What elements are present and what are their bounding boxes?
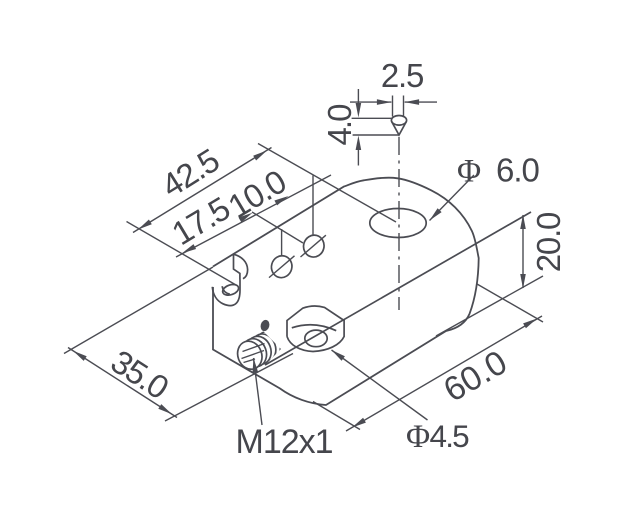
dim 35.0 right extension: [165, 354, 293, 422]
shared left extension line: [127, 222, 237, 286]
svg-text:20.0: 20.0: [530, 212, 567, 272]
svg-text:2.5: 2.5: [381, 57, 423, 94]
dim 2.5 extension lines: [392, 96, 394, 117]
screw hole B ellipse: [301, 233, 326, 260]
mounting lug hole: [305, 330, 327, 347]
M12 end face slot lines: [243, 344, 265, 352]
dim 2.5 right line with arrow: [405, 101, 437, 103]
dim 60.0 left extension: [313, 402, 360, 430]
dim 42.5 line: [133, 148, 272, 233]
cone tip ellipse: [391, 116, 406, 126]
notch groove bore ellipse: [221, 283, 240, 297]
dim 17.5-10.0 line: [176, 175, 331, 257]
dim 35.0 line: [68, 348, 177, 418]
top hole ellipse: [370, 209, 426, 238]
leader phi4.5: [332, 350, 428, 420]
front-top edge with 20.0 extension: [265, 212, 531, 365]
notch groove bore inner arc: [222, 286, 230, 294]
screw hole A vertical extension: [281, 229, 283, 256]
notch groove outer arc: [212, 280, 240, 306]
leader phi6: [430, 175, 475, 221]
dim 35.0 left extension: [64, 267, 213, 354]
notch slot right wall: [234, 254, 240, 279]
dim 4.0 top reference line: [352, 117, 393, 119]
mounting lug outline: [287, 306, 344, 352]
dim 20.0 line: [522, 215, 524, 288]
screw hole B vertical extension: [312, 176, 314, 236]
svg-text:Φ: Φ: [457, 154, 481, 190]
screw hole A ellipse: [269, 253, 294, 280]
dim 20.0 bottom extension: [436, 276, 543, 336]
indicator LED dot: [259, 319, 270, 332]
sensor body outline: [213, 178, 479, 405]
svg-text:4.5: 4.5: [430, 418, 470, 454]
cone sides: [392, 122, 407, 136]
extension at first hole: [252, 212, 303, 243]
M12 end face: [234, 338, 266, 373]
dim 4.0 upper arrow line: [357, 89, 359, 112]
svg-text:6.0: 6.0: [496, 152, 540, 189]
dim 60.0 line: [346, 316, 542, 431]
hole centerline dash-dot: [398, 137, 400, 310]
dim 42.5 right extension: [258, 144, 396, 223]
dim 4.0 lower arrow line: [357, 141, 359, 166]
svg-text:Φ: Φ: [406, 419, 430, 455]
dim 2.5 left line with arrow: [350, 101, 391, 103]
svg-text:4.0: 4.0: [321, 104, 358, 146]
dim 60.0 right extension: [477, 284, 543, 322]
leader M12x1: [254, 358, 263, 425]
mounting lug inner arc: [292, 325, 336, 331]
svg-text:M12x1: M12x1: [236, 423, 333, 461]
screw hole A slash: [269, 256, 295, 278]
screw hole B slash: [301, 235, 326, 257]
dim 4.0 bottom reference line: [353, 134, 399, 136]
